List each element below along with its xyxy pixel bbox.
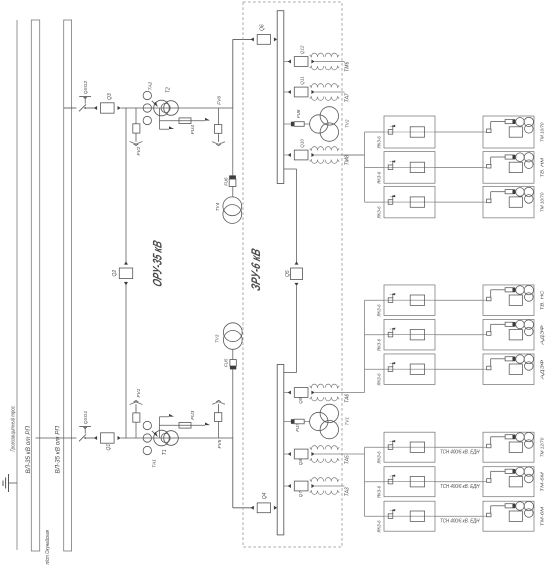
wire яч.7 to ТМ 12/70 xyxy=(435,446,483,448)
label TV3 xyxy=(215,334,220,343)
transformer cell box ТМ 12/70 xyxy=(483,432,534,462)
transformer cell box ТМ 10/70 xyxy=(483,116,534,148)
feeder wire Q7 xyxy=(315,485,345,487)
label ТМ6 xyxy=(345,62,351,72)
label ЯКЗ-6 of яч.1 xyxy=(376,136,381,149)
label ТСН 400/6 кВ. ЕДН xyxy=(440,484,480,490)
ground symbol on ground wire xyxy=(3,474,17,492)
label FV1 xyxy=(136,388,142,397)
incoming breaker Q6 xyxy=(251,35,278,45)
power transformer Т2 35/6 kV xyxy=(152,100,179,116)
feeder breaker Q7 xyxy=(284,481,315,491)
svg-text:FV1: FV1 xyxy=(136,388,142,397)
svg-text:ТСН 400/6 кВ. ЕДН: ТСН 400/6 кВ. ЕДН xyxy=(440,450,480,456)
label ТА7 xyxy=(345,93,351,102)
svg-text:ЯКЗ-6: ЯКЗ-6 xyxy=(376,486,381,499)
current transformer ТА1 xyxy=(143,421,151,454)
feeder wire Q10 xyxy=(315,154,365,156)
bus tie breaker Q2 xyxy=(119,261,132,285)
disconnector with earthing blade QSG1 xyxy=(79,427,91,442)
reactor coils of feeder Q11 (lower) xyxy=(310,97,340,101)
wire яч.6 to АДЗФ xyxy=(435,368,483,370)
label Q4 xyxy=(262,492,268,499)
svg-text:ТV4: ТV4 xyxy=(215,202,220,211)
svg-text:FU4: FU4 xyxy=(190,125,196,134)
cell box яч.3 (ЯКЗ-6) xyxy=(365,186,436,218)
label п/ст Окунайская xyxy=(44,530,51,565)
wire яч.2 to ТВ. НМ xyxy=(435,166,483,168)
svg-text:ЯКЗ-6: ЯКЗ-6 xyxy=(376,520,381,533)
svg-text:FU5: FU5 xyxy=(224,358,229,367)
cell box яч.2 (ЯКЗ-6) xyxy=(365,152,436,184)
svg-text:Q6: Q6 xyxy=(260,24,266,31)
surge arrester FV2 xyxy=(130,108,143,146)
surge arrester FV1 xyxy=(130,401,143,439)
transformer cell box ТМ-6М xyxy=(483,501,534,531)
circuit breaker Q1 xyxy=(94,433,121,443)
svg-text:ТА1: ТА1 xyxy=(151,459,157,468)
wire яч.3 to ТМ 10/70 xyxy=(435,201,483,203)
svg-text:Q4: Q4 xyxy=(262,492,268,499)
feeder wire Q12 xyxy=(315,61,345,63)
svg-text:ТV2: ТV2 xyxy=(344,119,349,128)
fuse FU8 of ТV2 xyxy=(284,122,310,127)
transformer cell box ТВ. НС xyxy=(483,285,534,316)
label FV5 xyxy=(217,439,223,448)
feeder wire Q8 xyxy=(315,453,365,455)
reactor coils of feeder Q9 (upper) xyxy=(310,384,340,388)
svg-text:ЯКЗ-6: ЯКЗ-6 xyxy=(376,339,381,352)
ЗРУ-6 кВ dashed enclosure xyxy=(243,2,342,547)
incoming breaker Q4 xyxy=(251,503,278,513)
label ТV2 xyxy=(344,119,349,128)
auxiliary outgoing arrow xyxy=(160,126,175,129)
label ТА2 xyxy=(148,81,154,90)
feeder breaker Q8 xyxy=(284,449,315,459)
label ТА3 xyxy=(345,487,351,496)
svg-text:Т2: Т2 xyxy=(166,87,172,93)
svg-text:FV2: FV2 xyxy=(136,146,142,155)
label of АДЗФ xyxy=(540,359,545,380)
label ЯКЗ-6 of яч.4 xyxy=(376,304,381,317)
svg-text:ТВ. НМ: ТВ. НМ xyxy=(540,158,545,178)
label Q3 xyxy=(107,93,113,100)
reactor coils of feeder Q12 (upper) xyxy=(310,53,340,57)
reactor coils of feeder Q10 (upper) xyxy=(310,147,340,151)
label ЯКЗ-6 of яч.5 xyxy=(376,339,381,352)
wire to voltage transformer TV3 xyxy=(232,369,234,438)
svg-text:ЯКЗ-6: ЯКЗ-6 xyxy=(376,451,381,464)
label FU3 xyxy=(190,410,196,419)
fuse FU6 of TV4 xyxy=(229,175,236,186)
label QSG2 xyxy=(83,81,89,95)
reactor coils of feeder Q7 (lower) xyxy=(310,491,340,495)
svg-text:FU6: FU6 xyxy=(223,177,228,186)
label Q10 xyxy=(300,139,305,148)
label ВЛ-35 кВ от РП (line 2) xyxy=(56,425,62,473)
label ЯКЗ-6 of яч.7 xyxy=(376,451,381,464)
svg-text:ЯКЗ-6: ЯКЗ-6 xyxy=(376,304,381,317)
circuit breaker Q3 xyxy=(94,103,121,113)
label ЯКЗ-6 of яч.6 xyxy=(376,373,381,386)
wire bus tie vertical xyxy=(125,108,127,438)
label FV6 xyxy=(216,96,222,105)
wire T2 to incoming breaker Q6 xyxy=(233,39,254,108)
svg-text:Q7: Q7 xyxy=(298,491,303,498)
svg-text:ТМ-6М: ТМ-6М xyxy=(540,507,545,527)
transformer cell box АДЗФ xyxy=(483,319,534,350)
label Q11 xyxy=(300,76,305,85)
sectionalizing breaker Q5 xyxy=(290,261,302,286)
auxiliary outgoing arrow xyxy=(160,414,175,417)
label ТМ8 xyxy=(345,155,351,165)
svg-text:ЯКЗ-6: ЯКЗ-6 xyxy=(376,206,381,219)
label ВЛ-35 кВ от РП (line 1) xyxy=(26,425,32,473)
svg-text:ТА7: ТА7 xyxy=(345,93,351,102)
label TV4 xyxy=(215,202,220,211)
wire Q6 to 6kV bus section 1 xyxy=(276,38,278,40)
fuse FU4 auxiliary branch xyxy=(160,118,211,124)
svg-text:ТВ. НС: ТВ. НС xyxy=(540,290,545,310)
voltage transformer ТV2 (three windings) xyxy=(310,107,339,142)
svg-text:ТV3: ТV3 xyxy=(215,334,220,343)
label ЯКЗ-6 of яч.8 xyxy=(376,486,381,499)
surge arrester FV5 xyxy=(212,400,225,438)
wire QSG2 to breaker Q3 xyxy=(85,107,97,109)
label Q9 xyxy=(298,397,303,404)
svg-text:Q5: Q5 xyxy=(285,270,291,277)
voltage transformer TV4 xyxy=(223,187,242,224)
svg-text:ТV1: ТV1 xyxy=(344,417,349,426)
distribution trunk group 1 xyxy=(342,132,365,202)
wire T1 to incoming breaker Q4 xyxy=(233,438,254,508)
svg-text:ТА3: ТА3 xyxy=(345,487,351,496)
label Грозозащитный трос xyxy=(10,406,17,452)
transformer cell box ТВ. НМ xyxy=(483,152,534,184)
svg-text:АДЗФ: АДЗФ xyxy=(540,325,545,346)
reactor coils of feeder Q8 (upper) xyxy=(310,446,340,450)
svg-text:QSG1: QSG1 xyxy=(83,411,89,425)
svg-text:ЯКЗ-6: ЯКЗ-6 xyxy=(376,373,381,386)
wire 35kV bay from line to disconnector QSG1 xyxy=(36,437,77,439)
disconnector with earthing blade QSG2 xyxy=(79,97,91,112)
svg-text:FV5: FV5 xyxy=(217,439,223,448)
6 kV busbar section 1 xyxy=(277,11,284,184)
svg-text:ЯКЗ-6: ЯКЗ-6 xyxy=(376,171,381,184)
wire яч.8 to ТМ-6М xyxy=(435,481,483,483)
svg-text:FV6: FV6 xyxy=(216,96,222,105)
svg-text:Q1: Q1 xyxy=(106,444,112,451)
svg-text:Q3: Q3 xyxy=(107,93,113,100)
svg-text:Q12: Q12 xyxy=(300,45,305,54)
label of ТМ 10/70 xyxy=(540,192,545,212)
reactor coils of feeder Q7 (upper) xyxy=(310,478,340,482)
wire 35kV bay from line to disconnector QSG2 xyxy=(64,107,77,109)
svg-text:Q8: Q8 xyxy=(298,459,303,466)
wire transformer Т1 auxiliary tap xyxy=(159,417,161,438)
svg-text:ТА6: ТА6 xyxy=(345,394,351,403)
transformer cell box ТМ-6М xyxy=(483,467,534,497)
label QSG1 xyxy=(83,411,89,425)
cell box яч.7 (ЯКЗ-6) xyxy=(365,432,436,462)
cell box яч.1 (ЯКЗ-6) xyxy=(365,116,436,148)
svg-text:ТМ 10/70: ТМ 10/70 xyxy=(540,192,545,212)
label of ТМ-6М xyxy=(540,472,545,492)
surge arrester FV6 xyxy=(212,108,225,146)
svg-text:QSG2: QSG2 xyxy=(83,81,89,95)
label of ТВ. НМ xyxy=(540,158,545,178)
35 kV overhead line bus 1 (ВЛ-35 кВ от РП) xyxy=(31,20,39,551)
label ЯКЗ-6 of яч.9 xyxy=(376,520,381,533)
label of ТМ-6М xyxy=(540,507,545,527)
current transformer ТА2 xyxy=(143,91,151,124)
svg-text:ЯКЗ-6: ЯКЗ-6 xyxy=(376,136,381,149)
feeder wire Q9 xyxy=(315,392,365,394)
svg-text:ТСН 400/6 кВ. ЕДН: ТСН 400/6 кВ. ЕДН xyxy=(440,484,480,490)
fuse FU5 of TV3 xyxy=(230,360,236,370)
wire яч.4 to ТВ. НС xyxy=(435,299,483,301)
svg-text:Грозозащитный трос: Грозозащитный трос xyxy=(10,406,17,452)
label ТСН 400/6 кВ. ЕДН xyxy=(440,519,480,525)
label Q1 xyxy=(106,444,112,451)
feeder wire Q11 xyxy=(315,91,345,93)
power transformer Т1 35/6 kV xyxy=(152,430,179,446)
label ЗРУ-6 кВ xyxy=(248,247,263,293)
wire bus section 1 to sectionalizer Q5 xyxy=(284,169,297,265)
svg-text:ТСН 400/6 кВ. ЕДН: ТСН 400/6 кВ. ЕДН xyxy=(440,519,480,525)
voltage transformer ТV1 (three windings) xyxy=(310,404,339,439)
wire яч.1 to ТМ 10/70 xyxy=(435,131,483,133)
label of ТМ 12/70 xyxy=(540,437,545,457)
label FU6 xyxy=(223,177,228,186)
feeder breaker Q10 xyxy=(284,150,315,160)
svg-text:ТМ-6М: ТМ-6М xyxy=(540,472,545,492)
svg-text:Q11: Q11 xyxy=(300,76,305,85)
svg-text:Q9: Q9 xyxy=(298,397,303,404)
label ОРУ-35 кВ xyxy=(150,239,165,289)
cell box яч.8 (ЯКЗ-6) xyxy=(365,467,436,497)
svg-text:ТА5: ТА5 xyxy=(345,455,351,464)
label FU4 xyxy=(190,125,196,134)
cell box яч.9 (ЯКЗ-6) xyxy=(365,501,436,531)
label of ТМ 10/70 xyxy=(540,122,545,142)
label ТА6 xyxy=(345,394,351,403)
label Т2 xyxy=(166,87,172,93)
svg-text:ТМ6: ТМ6 xyxy=(345,62,351,72)
6 kV busbar section 2 xyxy=(277,365,284,535)
reactor coils of feeder Q12 (lower) xyxy=(310,66,340,70)
wire Q5 to bus section 2 xyxy=(284,286,297,372)
svg-text:FU3: FU3 xyxy=(190,410,196,419)
svg-text:Q10: Q10 xyxy=(300,139,305,148)
ground wire (Грозозащитный трос) xyxy=(16,20,18,550)
label ТСН 400/6 кВ. ЕДН xyxy=(440,450,480,456)
cell box яч.5 (ЯКЗ-6) xyxy=(365,319,436,350)
label FU8 xyxy=(296,109,301,118)
label Q12 xyxy=(300,45,305,54)
svg-text:ВЛ-35 кВ от РП: ВЛ-35 кВ от РП xyxy=(26,425,32,473)
wire QSG1 to breaker Q1 xyxy=(85,437,97,439)
label Q5 xyxy=(285,270,291,277)
feeder breaker Q9 xyxy=(284,388,315,398)
distribution trunk group 3 xyxy=(364,447,366,516)
label ТА1 xyxy=(151,459,157,468)
label FU7 xyxy=(295,423,300,432)
svg-text:ОРУ-35 кВ: ОРУ-35 кВ xyxy=(150,239,165,289)
svg-text:ТМ 10/70: ТМ 10/70 xyxy=(540,122,545,142)
transformer cell box АДЗФ xyxy=(483,354,534,385)
wire breaker Q3 to transformer Т2 xyxy=(121,107,233,109)
voltage transformer TV3 xyxy=(223,323,242,360)
label Т1 xyxy=(162,449,168,455)
wire яч.9 to ТМ-6М xyxy=(435,515,483,517)
label of ТВ. НС xyxy=(540,290,545,310)
wire transformer Т2 auxiliary tap xyxy=(159,108,161,129)
svg-text:АДЗФ: АДЗФ xyxy=(540,359,545,380)
distribution trunk group 2 xyxy=(364,300,366,392)
svg-text:ТМ8: ТМ8 xyxy=(345,155,351,165)
transformer cell box ТМ 10/70 xyxy=(483,186,534,218)
cell box яч.6 (ЯКЗ-6) xyxy=(365,354,436,385)
label Q8 xyxy=(298,459,303,466)
svg-text:ТА2: ТА2 xyxy=(148,81,154,90)
label ЯКЗ-6 of яч.2 xyxy=(376,171,381,184)
fuse FU3 auxiliary branch xyxy=(160,422,211,428)
svg-text:ВЛ-35 кВ от РП: ВЛ-35 кВ от РП xyxy=(56,425,62,473)
svg-text:Q2: Q2 xyxy=(112,270,118,277)
label of АДЗФ xyxy=(540,325,545,346)
svg-text:п/ст Окунайская: п/ст Окунайская xyxy=(44,530,51,565)
label ТV1 xyxy=(344,417,349,426)
reactor coils of feeder Q8 (lower) xyxy=(310,459,340,463)
wire breaker Q1 to transformer Т1 xyxy=(121,437,233,439)
35 kV overhead line bus 2 (ВЛ-35 кВ от РП) xyxy=(64,20,72,551)
feeder breaker Q11 xyxy=(284,87,315,97)
label FU5 xyxy=(224,358,229,367)
fuse FU7 of ТV1 xyxy=(284,419,310,424)
wire яч.5 to АДЗФ xyxy=(435,334,483,336)
svg-text:FU8: FU8 xyxy=(296,109,301,118)
label ТА5 xyxy=(345,455,351,464)
label Q6 xyxy=(260,24,266,31)
svg-text:ТМ 12/70: ТМ 12/70 xyxy=(540,437,545,457)
svg-text:ЗРУ-6 кВ: ЗРУ-6 кВ xyxy=(248,247,263,293)
label Q7 xyxy=(298,491,303,498)
label FV2 xyxy=(136,146,142,155)
reactor coils of feeder Q11 (upper) xyxy=(310,84,340,88)
cell box яч.4 (ЯКЗ-6) xyxy=(365,285,436,316)
reactor coils of feeder Q10 (lower) xyxy=(310,160,340,164)
wire to voltage transformer TV4 xyxy=(232,108,234,175)
feeder breaker Q12 xyxy=(284,57,315,67)
svg-text:Т1: Т1 xyxy=(162,449,168,455)
label ЯКЗ-6 of яч.3 xyxy=(376,206,381,219)
svg-text:FU7: FU7 xyxy=(295,423,300,432)
reactor coils of feeder Q9 (lower) xyxy=(310,397,340,401)
label Q2 xyxy=(112,270,118,277)
